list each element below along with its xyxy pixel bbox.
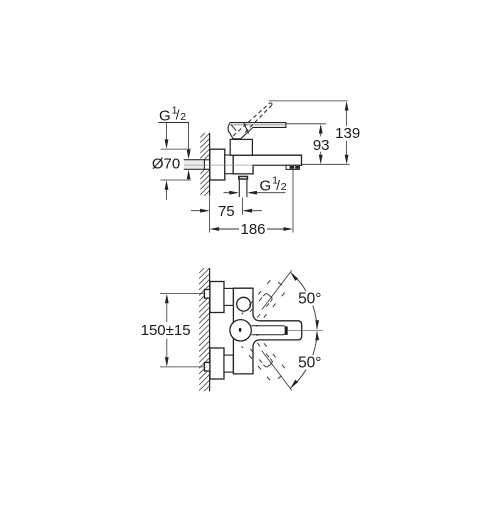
upper connector xyxy=(224,288,233,305)
reference line spout bottom xyxy=(302,163,350,165)
body neck xyxy=(225,155,233,174)
lever base cap xyxy=(228,123,252,139)
dimension 186 xyxy=(212,228,240,230)
extension line outlet center xyxy=(242,198,244,215)
escutcheon (round flange, side view) xyxy=(210,149,225,180)
svg-text:2: 2 xyxy=(180,111,186,123)
lever handle raised position (dashed) xyxy=(233,103,270,136)
svg-text:150±15: 150±15 xyxy=(141,322,191,339)
extension lines 150 +/- 15 xyxy=(160,293,204,295)
knob screw dot xyxy=(239,328,242,332)
lever knob (keyhole circle) xyxy=(230,320,251,341)
dimension 139 xyxy=(346,103,348,126)
svg-text:G: G xyxy=(260,178,272,195)
svg-text:139: 139 xyxy=(335,125,360,142)
svg-text:93: 93 xyxy=(313,137,330,154)
center axis line xyxy=(184,164,301,166)
supply pipe stub xyxy=(184,160,205,169)
wall nipple xyxy=(204,160,209,170)
extension line from wall (bottom dims) xyxy=(209,196,211,232)
svg-text:186: 186 xyxy=(240,221,265,238)
cartridge housing xyxy=(230,139,252,155)
svg-text:/: / xyxy=(176,108,180,123)
dimension 93 xyxy=(320,126,322,137)
lower connector xyxy=(224,355,233,372)
dimension 150 +/- 15 xyxy=(166,296,168,322)
extension line -50 deg axis xyxy=(262,351,292,391)
centerline right of lever xyxy=(288,329,323,331)
reference line lever bar xyxy=(286,123,326,125)
wall line (top figure) xyxy=(209,133,211,196)
svg-text:2: 2 xyxy=(281,181,287,193)
svg-text:Ø70: Ø70 xyxy=(152,156,180,173)
extension lines O70 xyxy=(161,148,192,150)
reference line top (raised lever height) xyxy=(269,100,348,102)
upper S-union xyxy=(210,282,224,313)
mixer body + spout (side view, L-shape) xyxy=(233,155,301,174)
dashed lever at -50 deg xyxy=(242,334,288,383)
extension line +50 deg axis xyxy=(262,270,292,310)
swing arc lower 50 deg xyxy=(313,332,317,356)
lower S-union xyxy=(210,348,224,379)
svg-text:75: 75 xyxy=(218,203,235,220)
extension line aerator center xyxy=(292,170,294,233)
lever handle bar (down position) xyxy=(230,123,286,128)
G1/2 leader arrows at pipe xyxy=(188,123,190,158)
lever back edges xyxy=(244,123,249,133)
wall line (front view) xyxy=(209,268,211,391)
dashed lever at +50 deg xyxy=(242,277,288,326)
lever slot dark end xyxy=(285,327,288,335)
svg-text:50°: 50° xyxy=(298,290,321,307)
lower union nut xyxy=(204,362,210,371)
diverter knob (upper circle) xyxy=(237,297,251,311)
shower outlet pipe xyxy=(238,180,240,197)
upper union nut xyxy=(204,290,210,299)
svg-text:G: G xyxy=(159,107,171,124)
svg-text:/: / xyxy=(276,178,280,193)
aerator / mousseur xyxy=(286,165,300,169)
swing arc upper 50 deg xyxy=(313,305,317,329)
shower outlet flange xyxy=(238,176,248,180)
dimension line O70 xyxy=(166,123,168,147)
svg-text:50°: 50° xyxy=(298,355,321,372)
lever inner face xyxy=(252,326,286,335)
dimension 75 xyxy=(191,210,207,212)
mixer body front silhouette with lever arm xyxy=(233,288,301,374)
